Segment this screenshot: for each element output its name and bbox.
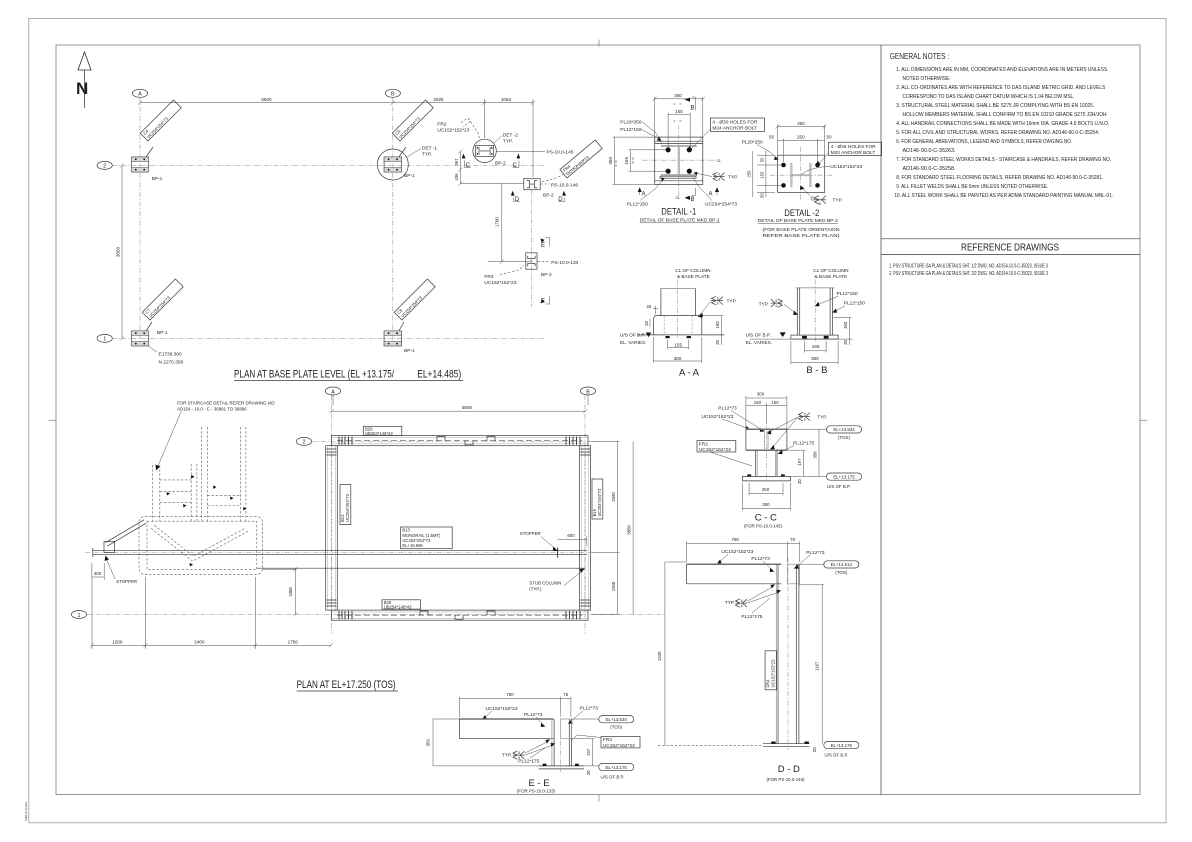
B14 label box (rotated) (340, 485, 351, 525)
svg-text:1. PSV STRUCTURE GA PLAN & DET: 1. PSV STRUCTURE GA PLAN & DETAILS SHT. … (889, 264, 1048, 270)
svg-text:6: 6 (804, 417, 806, 421)
bottom dims 1200/2400/1750 (92, 644, 331, 646)
arm end bracket (104, 542, 115, 553)
top right plate (787, 564, 799, 584)
detail callout circle at B/2 (377, 149, 408, 180)
svg-text:EL+13.534: EL+13.534 (833, 427, 855, 432)
svg-text:9. ALL FILLET WELDS SHALL BE 6: 9. ALL FILLET WELDS SHALL BE 6mm UNLESS … (896, 184, 1048, 190)
svg-text:E1738.300: E1738.300 (159, 352, 183, 358)
centering tick right (1140, 419, 1148, 421)
dim 195 (804, 341, 806, 353)
detail callout circle BP-2 (473, 139, 496, 162)
DET-1 TYP. label (407, 149, 421, 158)
svg-text:250: 250 (762, 487, 770, 492)
monorail beam B13 (93, 549, 587, 551)
B28 label box (382, 600, 421, 609)
dim 350 top (777, 125, 779, 155)
svg-text:197: 197 (797, 458, 802, 466)
dim 1000 (294, 569, 296, 614)
svg-text:(FOR BASE PLATE ORIENTAION: (FOR BASE PLATE ORIENTAION (763, 227, 840, 233)
svg-text:D - D: D - D (778, 764, 800, 775)
small flow arrows (167, 492, 171, 496)
dim 350 top (654, 97, 656, 137)
column centerline (787, 558, 789, 750)
column centerline (677, 280, 679, 339)
svg-text:397: 397 (454, 158, 459, 166)
dim 155 (667, 340, 669, 350)
section marker B top (685, 98, 691, 102)
svg-text:PL12*73: PL12*73 (524, 712, 543, 718)
svg-text:PL12*150: PL12*150 (837, 291, 858, 297)
svg-text:PL12*175: PL12*175 (793, 441, 814, 447)
svg-text:E - E: E - E (528, 778, 549, 789)
svg-text:FR3: FR3 (484, 274, 493, 280)
column left flange (775, 564, 777, 744)
column top cut (796, 287, 835, 289)
svg-text:TYP.: TYP. (833, 198, 843, 204)
svg-text:4. ALL HANDRAIL CONNECTIONS SH: 4. ALL HANDRAIL CONNECTIONS SHALL BE MAD… (896, 121, 1109, 127)
dim 350 left (613, 136, 655, 138)
svg-text:TYP.: TYP. (759, 302, 769, 308)
north arrow (76, 52, 91, 108)
svg-text:EL+14.485): EL+14.485) (417, 369, 461, 381)
svg-text:359: 359 (426, 739, 431, 747)
svg-text:20: 20 (797, 479, 802, 484)
svg-text:D: D (558, 197, 563, 203)
post pair 4 (tall) (240, 427, 242, 521)
svg-text:E: E (541, 243, 545, 249)
FR4 tag with dashed curve (542, 160, 584, 182)
column flange left (rotated) (791, 163, 793, 187)
svg-text:N: N (76, 79, 88, 98)
member tag C4 (146, 147, 153, 157)
svg-text:PL20*250: PL20*250 (742, 139, 763, 145)
weld symbol TYP bottom (802, 188, 814, 200)
column left flange (551, 719, 553, 766)
svg-text:BP-2: BP-2 (495, 160, 506, 166)
svg-text:1700: 1700 (495, 217, 500, 227)
svg-text:6: 6 (717, 297, 719, 301)
svg-text:350: 350 (762, 502, 770, 507)
PS-10.0-145 line and label (497, 150, 546, 152)
svg-text:UC152*152*23: UC152*152*23 (603, 743, 635, 749)
svg-text:& BASE PLATE: & BASE PLATE (677, 274, 710, 279)
svg-text:PL12*73: PL12*73 (718, 405, 737, 411)
beam bottom flange (746, 449, 787, 451)
beam B29 mid stiffener marks (437, 437, 495, 445)
svg-text:EL+13.175: EL+13.175 (831, 743, 853, 748)
member tag C6 (399, 322, 404, 331)
svg-text:PS-10.0-145: PS-10.0-145 (547, 150, 574, 156)
svg-text:B: B (391, 92, 395, 98)
dim 397 (802, 450, 804, 476)
svg-text:350: 350 (608, 157, 613, 165)
svg-text:7. FOR STANDARD STEEL WORKS DE: 7. FOR STANDARD STEEL WORKS DETAILS - ST… (896, 157, 1111, 163)
dim extension at x=533 (532, 99, 534, 177)
right dim 150/20 (848, 318, 850, 346)
svg-text:TYP.: TYP. (817, 414, 827, 420)
svg-text:2. PSV STRUCTURE GA PLAN & DET: 2. PSV STRUCTURE GA PLAN & DETAILS SHT. … (889, 271, 1048, 277)
svg-text:350: 350 (811, 356, 819, 361)
top beam B29 (331, 436, 588, 446)
svg-text:UC152*152*23: UC152*152*23 (699, 447, 731, 453)
svg-text:6: 6 (718, 177, 720, 181)
base plate PL20*350 outline (655, 137, 703, 184)
anchor bolt holes (666, 147, 671, 152)
grid bubble 2 (97, 161, 112, 169)
svg-text:FOR STAIRCASE DETAIL REFER DRA: FOR STAIRCASE DETAIL REFER DRAWING NO: (177, 401, 276, 406)
svg-text:5600: 5600 (462, 405, 473, 410)
svg-text:REFERENCE DRAWINGS: REFERENCE DRAWINGS (961, 242, 1059, 254)
dim 300 (745, 396, 747, 429)
svg-text:PL12*175: PL12*175 (518, 758, 539, 764)
svg-text:20: 20 (715, 340, 720, 345)
svg-text:BP-1: BP-1 (157, 330, 168, 336)
svg-text:EL. VARIES.: EL. VARIES. (746, 340, 773, 345)
svg-text:PLAN AT BASE PLATE LEVEL (EL +: PLAN AT BASE PLATE LEVEL (EL +13.175/ (234, 369, 395, 381)
left dimension 3850 (121, 165, 123, 338)
svg-text:PL12*175: PL12*175 (741, 614, 762, 620)
column right flange (568, 719, 570, 766)
svg-text:UC152*152*23: UC152*152*23 (484, 280, 516, 286)
dim 600 (558, 538, 587, 540)
svg-text:EL. VARIES.: EL. VARIES. (620, 340, 647, 345)
base plate BP-1 at A/1 (131, 331, 148, 346)
section marker C (right) (517, 154, 521, 159)
column flange right (810, 163, 812, 187)
svg-text:5. FOR ALL CIVIL AND STRUCTURA: 5. FOR ALL CIVIL AND STRUCTURAL WORKS, R… (896, 130, 1099, 136)
anchor bolts (771, 742, 775, 744)
member tag C5 (399, 147, 406, 157)
post pair 1 (152, 465, 154, 521)
grid extension (vertical dashed) for PS-10.0-133 (531, 190, 533, 307)
beam outline (687, 563, 782, 565)
grid bubble A (132, 89, 147, 97)
svg-text:(TYP.): (TYP.) (529, 587, 542, 592)
grid bubble B (385, 89, 400, 97)
svg-text:(TOS): (TOS) (835, 570, 847, 575)
left column B14 (326, 446, 338, 610)
svg-text:CL OF COLUMN: CL OF COLUMN (675, 268, 710, 273)
svg-text:1063: 1063 (501, 97, 512, 102)
dim 300 (91, 563, 93, 580)
svg-text:4 - Ø30 HOLES FOR: 4 - Ø30 HOLES FOR (712, 120, 758, 126)
centerline vertical (678, 125, 680, 199)
svg-text:UC254*254*73: UC254*254*73 (345, 493, 350, 522)
svg-text:PL12*73: PL12*73 (806, 550, 825, 556)
svg-text:3850: 3850 (627, 525, 632, 535)
svg-text:BP-2: BP-2 (541, 272, 552, 278)
column centerline (814, 280, 816, 343)
svg-text:Table of contents: Table of contents (24, 801, 28, 821)
centering tick left (49, 419, 57, 421)
svg-text:50: 50 (769, 135, 775, 140)
grid bubble B (580, 387, 595, 395)
dim 1339 (664, 562, 666, 745)
column bottom flange (661, 174, 696, 176)
connector line at y=183.6 (461, 183, 524, 185)
dim 397/436 (460, 151, 462, 183)
svg-text:DETAIL -2: DETAIL -2 (784, 208, 819, 218)
svg-text:EL+16.996: EL+16.996 (402, 543, 423, 548)
beam B29 end connection hatches (339, 437, 580, 445)
svg-text:1750: 1750 (288, 639, 299, 644)
svg-text:EL+13.175: EL+13.175 (833, 474, 855, 479)
svg-text:EL+13.175: EL+13.175 (606, 765, 628, 770)
left dims 50/150/50 and 250 (757, 154, 775, 156)
coordinate leader E1738.300 N2270.350 (148, 346, 157, 352)
reference drawings list (889, 264, 1048, 278)
dim 155 left (629, 149, 667, 151)
svg-text:76: 76 (790, 537, 795, 542)
top right plate (561, 719, 572, 739)
bottom beam B28 (331, 610, 588, 620)
svg-text:1350: 1350 (611, 581, 616, 591)
svg-text:U/S OF B.P.: U/S OF B.P. (825, 753, 849, 758)
svg-text:FR2: FR2 (437, 121, 446, 127)
svg-text:U/S OF B.P.: U/S OF B.P. (827, 484, 851, 489)
svg-text:300: 300 (94, 571, 102, 576)
svg-text:UC254*254*73: UC254*254*73 (597, 488, 602, 517)
svg-text:BP-1: BP-1 (152, 176, 163, 182)
PS-10.0-133 label (538, 261, 550, 263)
svg-text:360: 360 (674, 356, 682, 361)
svg-text:155: 155 (624, 157, 629, 165)
svg-text:U/S OF B.P.: U/S OF B.P. (620, 333, 645, 338)
svg-text:NOTED OTHERWISE.: NOTED OTHERWISE. (903, 76, 951, 82)
grid bubble 2 (296, 437, 311, 445)
svg-text:HOLLOW MEMBERS MATERIAL SHALL: HOLLOW MEMBERS MATERIAL SHALL CONFIRM TO… (903, 112, 1107, 118)
right dim line 3850 (632, 441, 634, 614)
EL+14.514 stadium (800, 563, 824, 565)
column flange lines (796, 288, 798, 335)
svg-text:B - B: B - B (806, 365, 827, 376)
DET-2 TYP. label (494, 136, 502, 144)
svg-text:(TOS): (TOS) (838, 435, 850, 440)
svg-text:25: 25 (647, 304, 652, 309)
U/S of BP line (638, 334, 725, 336)
dim 1700 vertical (501, 184, 503, 262)
svg-text:M24 ANCHOR BOLT: M24 ANCHOR BOLT (712, 126, 757, 132)
column web (678, 147, 680, 175)
grid bubble 1 (97, 334, 112, 342)
svg-text:STOPPER: STOPPER (116, 579, 137, 584)
svg-text:= =: = = (673, 101, 683, 106)
svg-text:B: B (586, 389, 590, 395)
svg-text:1: 1 (103, 337, 106, 343)
svg-text:155: 155 (674, 342, 682, 347)
svg-text:UC254*254*73: UC254*254*73 (705, 201, 737, 207)
svg-text:750: 750 (732, 537, 740, 542)
left arm member (106, 520, 145, 543)
centering tick top (598, 40, 600, 47)
svg-text:1339: 1339 (657, 651, 662, 661)
svg-text:76: 76 (563, 692, 568, 697)
svg-text:TYP.: TYP. (502, 752, 512, 758)
svg-text:= =: = = (673, 118, 683, 123)
svg-text:50: 50 (826, 135, 832, 140)
svg-text:PLAN AT EL+17.250 (TOS): PLAN AT EL+17.250 (TOS) (297, 679, 396, 691)
post pair 2 (190, 464, 192, 521)
top plate edge lines (655, 140, 703, 142)
weld symbol TYP (700, 301, 712, 315)
EL+13.175 stadium (824, 742, 859, 749)
general notes list (894, 67, 1113, 199)
grid line 2 (horizontal) (112, 164, 545, 166)
bottom plate PL12*150 (660, 176, 696, 178)
svg-text:197: 197 (586, 748, 591, 756)
svg-text:(TOS): (TOS) (610, 725, 622, 730)
grid line 2 horizontal (312, 440, 599, 442)
svg-text:3. STRUCTURAL STEEL MATERIAL S: 3. STRUCTURAL STEEL MATERIAL SHALL BE S2… (896, 103, 1094, 109)
dim 197 (592, 739, 594, 766)
svg-text:& BASE PLATE: & BASE PLATE (815, 274, 848, 279)
svg-text:350: 350 (797, 121, 805, 126)
svg-text:PL12*73: PL12*73 (751, 556, 770, 562)
dim 155 top (667, 113, 669, 147)
dim 20 left (649, 319, 651, 327)
svg-text:6: 6 (741, 604, 743, 608)
grid line 1 (horizontal) (112, 337, 545, 339)
EL+13.534 stadium (787, 428, 827, 430)
svg-text:6: 6 (804, 413, 806, 417)
grid line B vertical (584, 395, 586, 634)
base plate (763, 743, 810, 745)
section marker D (right) (562, 191, 566, 196)
section marker A bottom-left (638, 187, 642, 192)
base plate rect (791, 335, 838, 339)
svg-text:2025: 2025 (433, 97, 444, 102)
funnel V lines (151, 528, 248, 561)
beam outline (459, 718, 553, 720)
svg-text:A - A: A - A (679, 367, 700, 378)
centering tick bottom (598, 795, 600, 802)
weld symbol TYP right (695, 173, 712, 177)
stub beam at y=568 (257, 567, 585, 569)
svg-text:750: 750 (506, 692, 514, 697)
svg-text:EL+14.514: EL+14.514 (831, 562, 853, 567)
post pair 3 (tall) (201, 427, 203, 521)
top dim 5600 (332, 410, 586, 412)
boxed label 4-Ø26 holes (829, 142, 882, 155)
svg-text:C: C (466, 163, 471, 169)
beam web verticals (745, 429, 747, 450)
anchor bolts (665, 336, 669, 338)
svg-text:A: A (709, 192, 713, 198)
dashed base line left (658, 744, 763, 746)
svg-text:1. ALL DIMENSIONS ARE IN MM, C: 1. ALL DIMENSIONS ARE IN MM, COORDINATES… (896, 67, 1107, 73)
column left side (660, 288, 662, 315)
U/S line (750, 338, 853, 340)
staircase outer dashed rounded rect (139, 516, 263, 574)
svg-text:150: 150 (754, 400, 762, 405)
svg-text:3850: 3850 (116, 246, 121, 257)
dim 360 (652, 337, 654, 363)
svg-text:C - C: C - C (755, 512, 777, 523)
svg-text:2: 2 (303, 440, 306, 446)
svg-text:250: 250 (797, 135, 805, 140)
svg-text:UC152*152*23: UC152*152*23 (721, 549, 753, 555)
center stiffener PL12*73 (764, 429, 766, 450)
svg-text:PS-10.0-133: PS-10.0-133 (551, 260, 578, 266)
dim 350 (741, 483, 743, 510)
hidden flange edges in plate (663, 316, 665, 335)
svg-text:STUB COLUMN: STUB COLUMN (529, 581, 561, 586)
svg-text:2590: 2590 (611, 492, 616, 502)
svg-text:155: 155 (675, 109, 683, 114)
dim 358 (818, 429, 820, 476)
svg-text:EL+13.534: EL+13.534 (606, 717, 628, 722)
svg-text:UC152*152*23: UC152*152*23 (770, 659, 775, 688)
section marker D (left) (511, 191, 515, 196)
svg-text:DET -2: DET -2 (503, 133, 518, 139)
weld symbol TYP (799, 412, 811, 420)
svg-text:UC152*152*23: UC152*152*23 (701, 414, 733, 420)
right column B15 (580, 446, 591, 610)
centerline vertical (799, 147, 801, 201)
EL+13.175 stadium (584, 765, 599, 767)
column top flange (661, 145, 696, 147)
svg-text:50: 50 (760, 157, 765, 162)
anchor bolts (802, 336, 807, 339)
FR2 boxed label (697, 441, 736, 452)
svg-text:U/S OF B.P.: U/S OF B.P. (601, 774, 625, 779)
svg-text:REFER BASE PLATE PLAN): REFER BASE PLATE PLAN) (763, 233, 840, 239)
svg-text:(FOR PS-10.0-145): (FOR PS-10.0-145) (744, 523, 783, 528)
B15 label box (rotated) (592, 479, 603, 519)
section marker E (bottom) (541, 299, 545, 304)
connector line at y=261.6 (488, 261, 532, 263)
svg-text:AD154 - 10.0 - C - 36891 TO 36: AD154 - 10.0 - C - 36891 TO 36896 (177, 407, 247, 412)
svg-text:TYP.: TYP. (422, 152, 432, 158)
dim 1167 (821, 585, 823, 744)
svg-text:UB254*146*43: UB254*146*43 (365, 431, 393, 436)
svg-text:TYP.: TYP. (728, 175, 738, 181)
left dim 359 (432, 719, 434, 766)
svg-text:UC152*152*23: UC152*152*23 (437, 127, 469, 133)
anchor bolts (781, 163, 786, 168)
svg-text:C: C (513, 163, 518, 169)
section marker A bottom-right (715, 187, 719, 192)
svg-text:UB254*146*43: UB254*146*43 (384, 604, 412, 609)
svg-text:300: 300 (757, 391, 765, 396)
anchor bolts (747, 474, 751, 476)
svg-text:358: 358 (813, 451, 818, 459)
svg-text:6: 6 (717, 301, 719, 305)
base plate trapezoid (653, 316, 701, 335)
B13 label box (401, 527, 453, 549)
grid line A vertical (331, 395, 333, 634)
top dim 750/76 (686, 542, 688, 563)
svg-text:A: A (138, 92, 142, 98)
ladder rungs (160, 479, 191, 481)
svg-text:600: 600 (567, 533, 575, 538)
base plate BP-2 (PS-10.0-133) (526, 253, 537, 269)
svg-text:DET -1: DET -1 (422, 146, 437, 152)
centerline horizontal (642, 159, 716, 161)
svg-text:UC152*152*23: UC152*152*23 (486, 706, 518, 712)
svg-text:PL12*150: PL12*150 (627, 201, 648, 207)
svg-text:50: 50 (760, 193, 765, 198)
member tag C7 (146, 322, 152, 331)
svg-text:6: 6 (718, 173, 720, 177)
base plate BP-1 at B/2 (384, 157, 401, 172)
svg-text:250: 250 (746, 170, 751, 178)
EL+13.534 stadium (572, 718, 599, 720)
monorail stopper tick (557, 548, 559, 558)
svg-text:PL12*73: PL12*73 (580, 706, 599, 712)
beam top flange (746, 428, 787, 430)
